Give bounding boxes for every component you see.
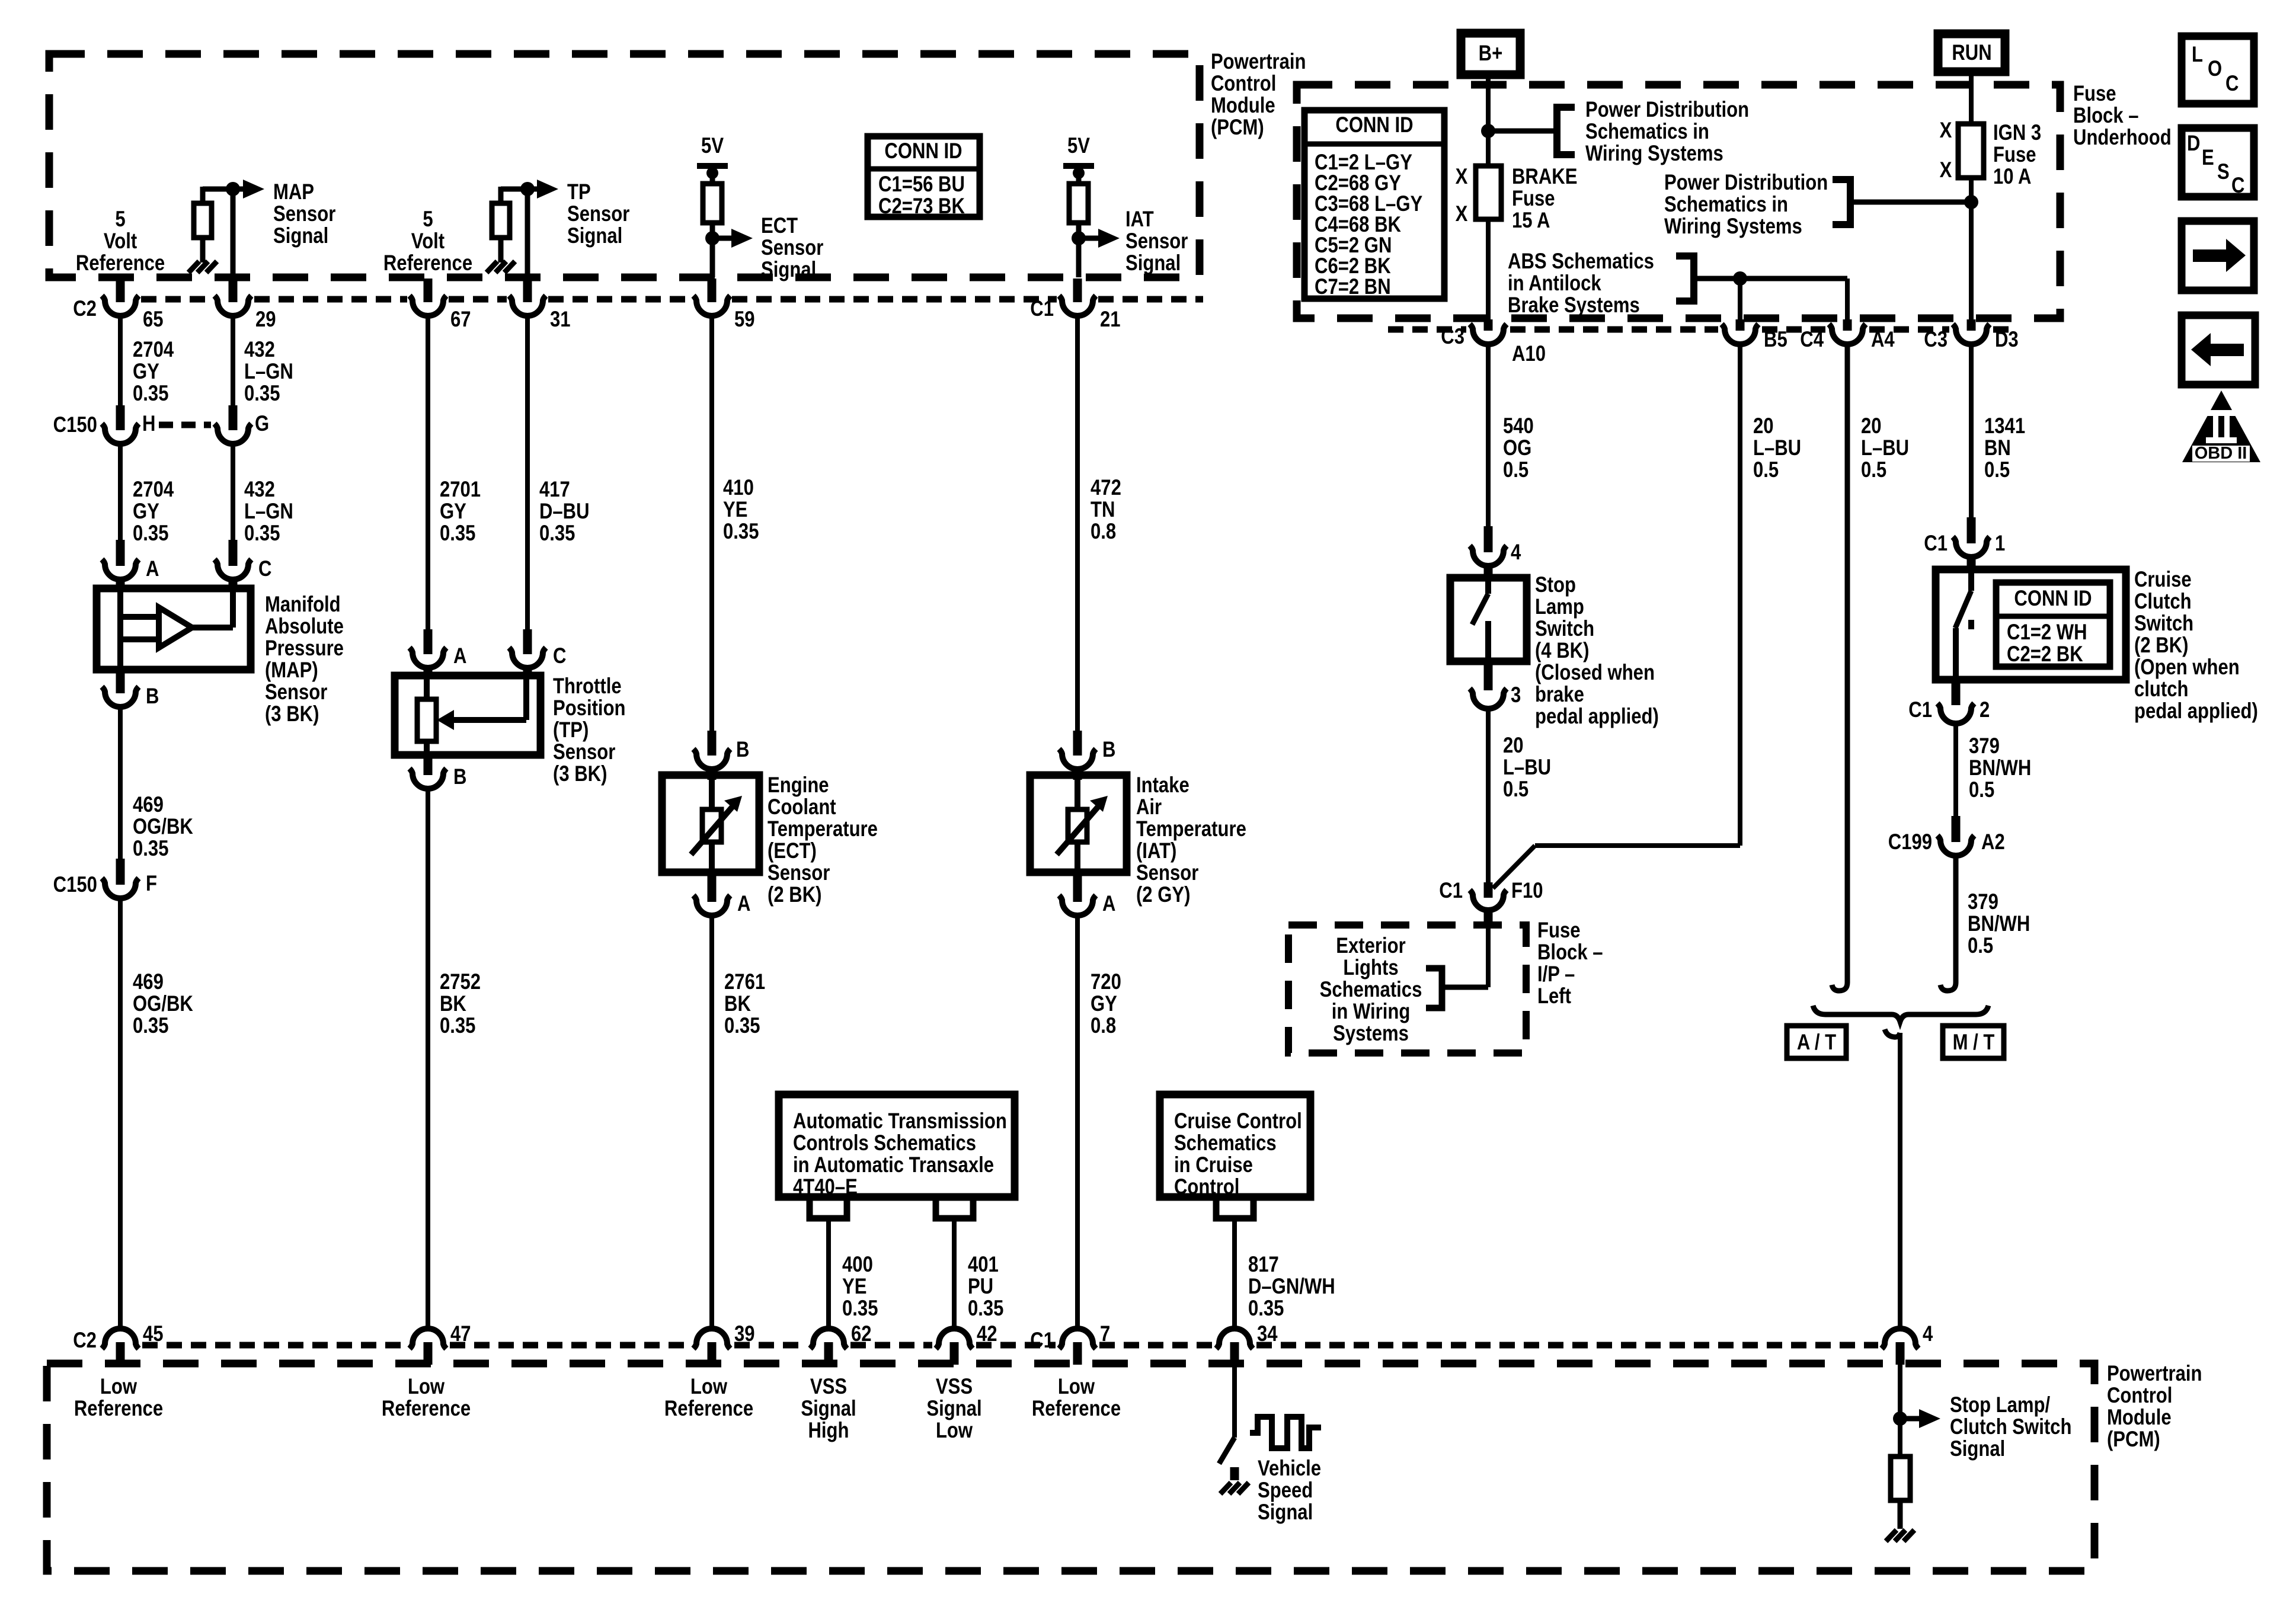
svg-text:20: 20	[1753, 414, 1774, 438]
icon left arrow box	[2182, 315, 2255, 385]
connector C150 pin G	[229, 405, 238, 430]
connector pin 31 (top row)	[523, 279, 532, 302]
wire 432 L-GN pin29 to C150-G	[231, 315, 235, 405]
connector pin D3 fuse block	[1967, 319, 1976, 331]
wire 401 PU to pin 42	[952, 1218, 957, 1329]
svg-text:in Wiring: in Wiring	[1332, 1000, 1411, 1024]
svg-text:469: 469	[133, 793, 164, 817]
svg-text:Lamp: Lamp	[1535, 595, 1584, 619]
svg-text:Throttle: Throttle	[553, 674, 622, 699]
svg-text:IAT: IAT	[1125, 207, 1154, 232]
svg-text:Vehicle: Vehicle	[1258, 1457, 1321, 1481]
svg-text:D: D	[2187, 132, 2200, 156]
svg-text:S: S	[2217, 160, 2230, 184]
op-amp symbol inside MAP sensor	[117, 588, 123, 670]
svg-text:Control: Control	[1174, 1175, 1239, 1199]
arrow IAT sensor signal	[1079, 236, 1099, 241]
svg-text:62: 62	[851, 1322, 872, 1346]
svg-text:Left: Left	[1537, 984, 1571, 1009]
svg-text:Sensor: Sensor	[1136, 861, 1198, 885]
svg-text:59: 59	[734, 308, 755, 332]
svg-text:L: L	[2192, 43, 2203, 67]
svg-text:B: B	[1102, 738, 1115, 762]
svg-text:2: 2	[1980, 698, 1990, 722]
connector MAP pin B	[116, 670, 125, 693]
bracket power distribution 2	[1833, 180, 1850, 225]
Cruise Clutch Switch box	[1936, 569, 2126, 680]
connector TP pin A	[424, 629, 433, 654]
connector cruise clutch switch pin C1 1	[1967, 517, 1976, 543]
svg-text:pedal applied): pedal applied)	[1535, 705, 1659, 729]
svg-text:O: O	[2208, 57, 2222, 81]
waveform square wave symbol	[1250, 1417, 1321, 1448]
svg-text:20: 20	[1861, 414, 1882, 438]
svg-text:C1=2 WH: C1=2 WH	[2007, 620, 2087, 645]
svg-text:0.35: 0.35	[133, 1014, 168, 1038]
connector C150 pin H	[116, 405, 125, 430]
wire 410 YE pin59 to ECT B	[709, 315, 714, 731]
svg-text:Switch: Switch	[1535, 617, 1594, 641]
wire ABS line to B5 and A4	[1694, 276, 1847, 281]
svg-text:C3: C3	[1441, 325, 1464, 349]
wire 417 D-BU pin31 to TP C	[525, 315, 530, 629]
svg-text:Cruise Control: Cruise Control	[1174, 1109, 1302, 1134]
icon right arrow box	[2182, 221, 2254, 290]
svg-text:720: 720	[1091, 970, 1121, 994]
svg-text:GY: GY	[133, 360, 159, 384]
connector C150 pin F	[116, 859, 125, 885]
svg-text:X: X	[1940, 158, 1952, 183]
svg-text:42: 42	[977, 1322, 997, 1346]
connector ECT pin A	[708, 872, 717, 902]
svg-text:Signal: Signal	[801, 1397, 856, 1421]
svg-text:540: 540	[1503, 414, 1534, 438]
svg-text:(3 BK): (3 BK)	[265, 702, 319, 726]
svg-text:Absolute: Absolute	[265, 614, 344, 639]
svg-text:400: 400	[842, 1253, 873, 1277]
svg-text:Signal: Signal	[273, 224, 328, 248]
svg-text:Block –: Block –	[1537, 940, 1603, 965]
svg-text:0.5: 0.5	[1969, 778, 1994, 802]
node IAT signal junction	[1072, 231, 1086, 245]
svg-text:C: C	[553, 644, 566, 668]
svg-text:C3: C3	[1924, 328, 1948, 352]
svg-text:0.35: 0.35	[723, 520, 759, 544]
svg-text:VSS: VSS	[810, 1375, 847, 1399]
svg-text:2761: 2761	[724, 970, 765, 994]
connector cruise clutch switch pin C1 2	[1952, 680, 1961, 705]
connector pin 59 (top row)	[708, 279, 717, 302]
svg-text:Stop Lamp/: Stop Lamp/	[1950, 1393, 2051, 1417]
connector pin 45 (bottom row)	[102, 1329, 139, 1349]
svg-text:C150: C150	[53, 873, 97, 897]
connector pin 65 (top row)	[116, 279, 125, 302]
svg-text:2704: 2704	[133, 338, 174, 362]
svg-text:RUN: RUN	[1952, 41, 1991, 65]
svg-text:410: 410	[723, 476, 754, 500]
svg-text:Signal: Signal	[567, 224, 622, 248]
svg-text:L–BU: L–BU	[1753, 436, 1801, 460]
svg-text:C4: C4	[1800, 328, 1824, 352]
svg-text:in Antilock: in Antilock	[1508, 271, 1602, 296]
connector dashed line bottom row	[142, 1342, 406, 1349]
svg-text:(Open when: (Open when	[2134, 655, 2240, 680]
svg-text:C2: C2	[73, 1329, 97, 1353]
wire 472 TN pin21 to IAT B	[1075, 315, 1080, 731]
svg-text:Schematics: Schematics	[1320, 978, 1422, 1002]
wire RUN to IGN 3 fuse	[1969, 76, 1974, 125]
svg-text:X: X	[1456, 202, 1468, 226]
svg-text:I/P –: I/P –	[1537, 962, 1575, 987]
wire F10 into fuse block I/P	[1486, 927, 1491, 987]
svg-text:Wiring Systems: Wiring Systems	[1585, 142, 1723, 166]
svg-text:Speed: Speed	[1258, 1478, 1313, 1503]
svg-text:D–BU: D–BU	[539, 500, 590, 524]
svg-text:G: G	[255, 412, 269, 436]
brace A/T M/T selector	[1813, 1006, 1988, 1022]
svg-text:CONN ID: CONN ID	[1335, 113, 1413, 137]
svg-text:C: C	[2225, 72, 2239, 96]
svg-text:5V: 5V	[1067, 134, 1090, 158]
svg-text:(PCM): (PCM)	[2107, 1427, 2160, 1452]
svg-text:Low: Low	[690, 1375, 728, 1399]
svg-text:7: 7	[1100, 1322, 1110, 1346]
wire 469 OG/BK C150-F to pin 45	[118, 899, 123, 1329]
ground stop lamp signal	[1886, 1530, 1897, 1541]
node junction ABS/B5	[1733, 271, 1747, 286]
svg-text:5V: 5V	[701, 134, 724, 158]
svg-text:E: E	[2202, 146, 2214, 170]
svg-text:Intake: Intake	[1136, 773, 1189, 798]
wire 20 L-BU B5 to F10 junction	[1738, 344, 1742, 846]
connector stop lamp switch pin 4	[1484, 526, 1493, 552]
node B+ junction to power distribution	[1481, 124, 1495, 138]
svg-text:X: X	[1940, 119, 1952, 143]
svg-text:0.35: 0.35	[1248, 1297, 1284, 1321]
svg-text:31: 31	[550, 308, 571, 332]
svg-text:5: 5	[115, 207, 125, 232]
svg-text:B: B	[453, 765, 466, 789]
ground vehicle speed	[1220, 1483, 1231, 1494]
svg-text:in Automatic Transaxle: in Automatic Transaxle	[793, 1153, 994, 1177]
svg-text:B5: B5	[1764, 328, 1787, 352]
svg-text:D3: D3	[1995, 328, 2019, 352]
svg-text:A / T: A / T	[1797, 1030, 1836, 1055]
svg-text:1341: 1341	[1984, 414, 2025, 438]
svg-text:20: 20	[1503, 734, 1524, 758]
svg-text:1: 1	[1995, 532, 2005, 556]
svg-text:A2: A2	[1981, 830, 2005, 854]
svg-text:Clutch Switch: Clutch Switch	[1950, 1415, 2071, 1439]
potentiometer symbol inside TP sensor	[424, 676, 430, 700]
svg-text:Control: Control	[1211, 72, 1276, 96]
svg-text:A4: A4	[1871, 328, 1895, 352]
svg-text:Sensor: Sensor	[265, 680, 327, 705]
svg-text:A: A	[453, 644, 466, 668]
connector MAP pin A	[116, 540, 125, 566]
resistor stop lamp signal pull-down	[1891, 1457, 1910, 1500]
bracket exterior lights	[1426, 968, 1442, 1008]
node MAP signal junction	[226, 182, 240, 196]
node ECT signal junction	[705, 231, 720, 245]
svg-text:A: A	[146, 557, 159, 581]
svg-text:BK: BK	[724, 992, 751, 1016]
svg-text:L–BU: L–BU	[1861, 436, 1909, 460]
svg-text:clutch: clutch	[2134, 677, 2189, 702]
PCM bottom dashed box (Powertrain Control Module)	[47, 1363, 2094, 1571]
wire pin 4 into PCM	[1898, 1365, 1902, 1458]
svg-text:Block –: Block –	[2073, 104, 2139, 128]
svg-text:pedal applied): pedal applied)	[2134, 699, 2258, 724]
svg-text:Engine: Engine	[768, 773, 829, 798]
resistor IAT pull-up in PCM	[1076, 169, 1082, 185]
svg-text:Reference: Reference	[74, 1397, 163, 1421]
connector dashed line fuse block outputs	[1388, 327, 1466, 333]
svg-text:C1: C1	[1924, 532, 1948, 556]
Fuse Block Underhood dashed box	[1297, 85, 2060, 318]
wire 720 GY IAT-A to pin 7	[1075, 915, 1080, 1329]
svg-text:47: 47	[450, 1322, 471, 1346]
svg-text:0.35: 0.35	[133, 837, 168, 861]
connector ECT pin B	[708, 731, 717, 756]
thermistor symbol inside IAT sensor	[1075, 775, 1080, 811]
power RUN box	[1938, 34, 2005, 72]
PCM top dashed box (Powertrain Control Module)	[49, 54, 1200, 277]
arrow ECT sensor signal	[712, 236, 733, 241]
svg-text:0.5: 0.5	[1753, 458, 1779, 482]
reference box Cruise Control Schematics in Cruise Control	[1160, 1094, 1310, 1197]
svg-text:A: A	[737, 892, 750, 916]
connector pin A4 fuse block	[1843, 319, 1852, 331]
svg-text:(PCM): (PCM)	[1211, 116, 1264, 140]
svg-text:YE: YE	[842, 1275, 866, 1299]
svg-text:0.8: 0.8	[1091, 1014, 1116, 1038]
svg-text:0.35: 0.35	[244, 382, 280, 406]
svg-text:Underhood: Underhood	[2073, 126, 2172, 150]
svg-text:in Cruise: in Cruise	[1174, 1153, 1253, 1177]
svg-text:Low: Low	[936, 1419, 973, 1443]
svg-text:4T40–E: 4T40–E	[793, 1175, 858, 1199]
switch blade stop lamp switch	[1485, 578, 1491, 594]
wire 400 YE to pin 62	[826, 1218, 831, 1329]
svg-text:Wiring Systems: Wiring Systems	[1664, 215, 1802, 239]
svg-text:Sensor: Sensor	[761, 236, 823, 260]
connector pin 62 (bottom row)	[810, 1329, 847, 1349]
svg-text:Brake Systems: Brake Systems	[1508, 293, 1640, 318]
svg-text:High: High	[808, 1419, 849, 1443]
svg-text:Stop: Stop	[1535, 573, 1576, 597]
connector TP pin C	[523, 629, 532, 654]
svg-text:2704: 2704	[133, 478, 174, 502]
svg-text:Sensor: Sensor	[768, 861, 830, 885]
svg-text:417: 417	[539, 478, 570, 502]
svg-text:Clutch: Clutch	[2134, 590, 2192, 614]
svg-text:Automatic Transmission: Automatic Transmission	[793, 1109, 1007, 1134]
svg-text:TP: TP	[567, 180, 591, 204]
svg-text:X: X	[1456, 165, 1468, 189]
svg-text:Systems: Systems	[1333, 1022, 1409, 1046]
svg-text:0.35: 0.35	[724, 1014, 760, 1038]
svg-text:BK: BK	[440, 992, 466, 1016]
svg-text:67: 67	[450, 308, 471, 332]
node junction IGN3/power distribution 2	[1964, 195, 1978, 209]
svg-text:IGN 3: IGN 3	[1993, 121, 2041, 145]
svg-text:0.35: 0.35	[968, 1297, 1003, 1321]
wire brace to pin 4	[1885, 1029, 1900, 1037]
svg-text:432: 432	[244, 478, 275, 502]
svg-text:Signal: Signal	[1125, 251, 1181, 276]
svg-text:Low: Low	[100, 1375, 137, 1399]
svg-text:L–BU: L–BU	[1503, 756, 1551, 780]
arrow TP sensor signal	[527, 187, 538, 192]
svg-text:GY: GY	[133, 500, 159, 524]
svg-text:Exterior: Exterior	[1336, 934, 1405, 958]
svg-text:65: 65	[143, 308, 164, 332]
svg-text:(IAT): (IAT)	[1136, 839, 1176, 863]
svg-text:C7=2 BN: C7=2 BN	[1315, 275, 1391, 299]
svg-text:Manifold: Manifold	[265, 593, 341, 617]
wire MAP signal to pin 29	[231, 189, 236, 277]
svg-text:Reference: Reference	[1032, 1397, 1121, 1421]
svg-text:C: C	[2231, 174, 2244, 198]
resistor MAP pull-up in PCM	[203, 187, 233, 192]
svg-text:5: 5	[423, 207, 433, 232]
svg-text:Signal: Signal	[1258, 1500, 1313, 1525]
svg-text:Coolant: Coolant	[768, 795, 836, 820]
svg-text:C1=56 BU: C1=56 BU	[878, 172, 965, 197]
connector C150 dashed link H-G	[159, 422, 211, 428]
svg-text:C150: C150	[53, 413, 97, 437]
svg-text:B+: B+	[1479, 41, 1503, 66]
svg-text:0.5: 0.5	[1861, 458, 1886, 482]
svg-text:PU: PU	[968, 1275, 993, 1299]
power B+ box	[1461, 33, 1520, 75]
svg-text:(4 BK): (4 BK)	[1535, 639, 1589, 663]
svg-text:L–GN: L–GN	[244, 360, 293, 384]
Stop Lamp Switch box	[1450, 578, 1527, 661]
connector IAT pin B	[1073, 731, 1082, 756]
arrow MAP sensor signal	[233, 187, 244, 192]
wire 2752 BK TP-B to pin 47	[426, 788, 430, 1329]
svg-text:Control: Control	[2107, 1384, 2172, 1408]
svg-text:21: 21	[1100, 308, 1121, 332]
svg-text:432: 432	[244, 338, 275, 362]
svg-text:Low: Low	[408, 1375, 445, 1399]
bracket power distribution 1	[1557, 107, 1575, 155]
svg-text:C2: C2	[73, 297, 97, 321]
switch vehicle speed signal	[1219, 1438, 1235, 1464]
svg-text:MAP: MAP	[273, 180, 314, 204]
connector MAP pin C	[229, 540, 238, 566]
svg-text:379: 379	[1968, 890, 1998, 914]
ground MAP pull-up	[188, 261, 199, 273]
ECT sensor box	[662, 775, 759, 872]
wire 379 BN/WH to C199	[1953, 723, 1958, 816]
svg-text:Schematics in: Schematics in	[1664, 193, 1788, 217]
arrow stop lamp/clutch switch signal	[1900, 1416, 1920, 1422]
svg-text:C1: C1	[1908, 698, 1932, 722]
svg-text:401: 401	[968, 1253, 999, 1277]
svg-text:34: 34	[1257, 1322, 1278, 1346]
svg-text:Signal: Signal	[1950, 1437, 2005, 1461]
connector pin 39 (bottom row)	[693, 1329, 730, 1349]
node TP signal junction	[520, 182, 535, 196]
svg-text:0.8: 0.8	[1091, 520, 1116, 544]
table CONN ID fuse block C1..C7	[1304, 110, 1444, 299]
svg-text:BN/WH: BN/WH	[1969, 756, 2031, 780]
svg-text:OG: OG	[1503, 436, 1531, 460]
wire BRAKE fuse to connector A10	[1486, 219, 1491, 319]
svg-text:OG/BK: OG/BK	[133, 815, 193, 839]
svg-text:(2 BK): (2 BK)	[768, 883, 821, 907]
resistor TP pull-up in PCM	[501, 187, 527, 192]
svg-text:Fuse: Fuse	[1537, 918, 1581, 943]
svg-text:2701: 2701	[440, 478, 481, 502]
table CONN ID cruise clutch C1=2 WH C2=2 BK	[1996, 582, 2110, 667]
connector pin 67 (top row)	[424, 279, 433, 302]
svg-text:Powertrain: Powertrain	[2107, 1362, 2202, 1386]
svg-text:TN: TN	[1091, 498, 1115, 522]
svg-text:4: 4	[1923, 1322, 1933, 1346]
connector C199 pin A2	[1952, 816, 1961, 842]
svg-text:OBD II: OBD II	[2195, 444, 2247, 463]
svg-text:Reference: Reference	[76, 251, 165, 276]
TP sensor box	[395, 676, 541, 755]
svg-text:A10: A10	[1512, 342, 1546, 366]
svg-text:Controls Schematics: Controls Schematics	[793, 1131, 976, 1156]
connector pin A10 fuse block	[1484, 319, 1493, 331]
svg-text:Sensor: Sensor	[273, 202, 335, 226]
wire 432 L-GN C150-G to MAP C	[231, 444, 235, 540]
connector pin 34 (bottom row)	[1216, 1329, 1253, 1349]
svg-text:Fuse: Fuse	[2073, 82, 2116, 106]
svg-text:29: 29	[255, 308, 276, 332]
wire TP signal to pin 31	[525, 189, 530, 277]
wire 1341 BN D3 to cruise clutch switch	[1969, 344, 1974, 517]
connector pin 4 (bottom row)	[1882, 1329, 1918, 1349]
svg-text:Power Distribution: Power Distribution	[1585, 98, 1749, 122]
svg-text:VSS: VSS	[936, 1375, 973, 1399]
wire B+ down to BRAKE fuse	[1486, 79, 1491, 167]
svg-text:Sensor: Sensor	[553, 740, 615, 764]
svg-text:BRAKE: BRAKE	[1512, 165, 1577, 189]
MAP sensor box	[97, 588, 251, 670]
svg-text:Volt: Volt	[411, 229, 445, 254]
wire 379 BN/WH C199 to M/T brace	[1940, 855, 1956, 991]
svg-text:YE: YE	[723, 498, 747, 522]
icon LOC box	[2182, 36, 2254, 104]
connector pin 29 (top row)	[229, 279, 238, 302]
icon DESC box	[2182, 128, 2254, 197]
svg-text:Pressure: Pressure	[265, 636, 344, 661]
svg-text:Sensor: Sensor	[1125, 229, 1188, 254]
svg-text:10 A: 10 A	[1993, 165, 2031, 189]
power 5V bar IAT	[1063, 163, 1094, 169]
svg-text:D–GN/WH: D–GN/WH	[1248, 1275, 1335, 1299]
wire 20 L-BU A4 down to A/T brace	[1832, 344, 1847, 991]
svg-text:B: B	[146, 684, 159, 709]
bracket ABS schematics	[1676, 256, 1694, 301]
svg-text:0.5: 0.5	[1503, 777, 1528, 802]
svg-text:C199: C199	[1888, 830, 1932, 854]
svg-text:L–GN: L–GN	[244, 500, 293, 524]
svg-text:Switch: Switch	[2134, 612, 2193, 636]
svg-text:(MAP): (MAP)	[265, 658, 318, 683]
connector pin B5 fuse block	[1736, 319, 1745, 331]
svg-text:A: A	[1102, 892, 1115, 916]
svg-text:(3 BK): (3 BK)	[553, 762, 607, 786]
svg-text:2752: 2752	[440, 970, 481, 994]
